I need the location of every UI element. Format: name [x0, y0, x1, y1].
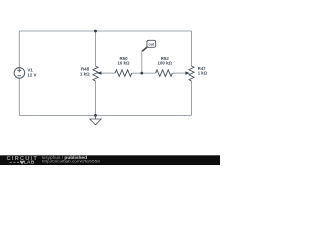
resistor R52	[156, 70, 173, 77]
resistor (pot) R48	[93, 66, 98, 81]
R47 wiper arrow	[185, 71, 189, 74]
junction (top, R48/top rail)	[94, 30, 97, 33]
resistor (pot) R47	[189, 66, 194, 81]
wire middle (R48 wiper to R50)	[100, 72, 116, 74]
wire top rail	[19, 30, 191, 32]
svg-text:10 kΩ: 10 kΩ	[117, 60, 130, 65]
svg-text:1 kΩ: 1 kΩ	[80, 72, 90, 77]
wire middle (R52 to R47 wiper)	[172, 72, 187, 74]
node out flag	[142, 40, 155, 51]
wire R47 top lead	[191, 31, 193, 66]
wire left rail lower (V1 bottom lead)	[18, 78, 20, 115]
svg-text:12 V: 12 V	[27, 73, 36, 78]
voltage source V1	[14, 68, 25, 79]
ground	[90, 115, 101, 125]
footer bar	[0, 155, 220, 165]
wire middle (R50 to out junction to R52)	[132, 72, 156, 74]
wire R48 top lead	[95, 31, 97, 66]
svg-text:http:⁄⁄circuitlab.com⁄c⁄bsb558: http:⁄⁄circuitlab.com⁄c⁄bsb558	[42, 159, 100, 164]
wire bottom rail	[19, 114, 191, 116]
logo resistor mark	[20, 161, 23, 163]
svg-text:out: out	[149, 43, 155, 47]
svg-text:100 kΩ: 100 kΩ	[158, 61, 173, 66]
svg-text:R48: R48	[81, 66, 90, 71]
junction (out node on middle wire)	[140, 72, 143, 75]
logo dashes	[10, 161, 20, 163]
R48 wiper arrow	[97, 71, 101, 74]
resistor R50	[115, 70, 132, 77]
wire left rail upper (V1 top lead)	[18, 31, 20, 68]
wire out flag stem	[141, 51, 143, 73]
junction (bottom, ground)	[94, 114, 97, 117]
svg-text:LAB: LAB	[24, 160, 35, 165]
wire R47 bottom lead	[191, 81, 193, 115]
wire R48 bottom lead	[95, 81, 97, 115]
svg-text:1 kΩ: 1 kΩ	[198, 71, 208, 76]
